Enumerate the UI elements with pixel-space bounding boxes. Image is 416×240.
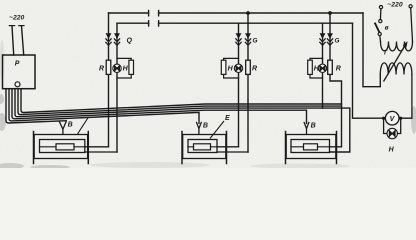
break tick <box>148 21 150 26</box>
voltmeter V <box>385 111 399 125</box>
wire bus w5 (box to branch 3 staircase) <box>18 89 342 115</box>
branch 2 <box>239 13 249 152</box>
top bus upper line (right part) <box>159 12 363 14</box>
wire branch1 right (from lower bus) <box>116 23 118 152</box>
svg-text:P: P <box>15 61 20 68</box>
wire upper bus to transformer secondary left <box>363 13 380 87</box>
wire bus w6 (box to branch 3 staircase) <box>21 89 342 113</box>
parallel loop with resistor H branch2 <box>221 58 238 78</box>
top bus lower line (right part) <box>159 22 353 24</box>
plug B unit2 <box>196 122 201 129</box>
lamp H <box>387 128 397 138</box>
secondary right terminal down to voltmeter <box>411 75 413 119</box>
plug B unit1 <box>59 121 67 130</box>
break tick resume upper <box>158 11 160 16</box>
wire bus w4 (box to unit 3 lower entry) <box>15 89 350 152</box>
right feed corners <box>353 13 386 118</box>
entry stub upper from branch2 <box>217 146 239 148</box>
switch (right supply) <box>379 6 382 9</box>
svg-text:E: E <box>225 115 230 122</box>
entry stub lower from branch1 <box>85 151 117 153</box>
svg-text:G: G <box>253 38 258 45</box>
wire bus w3 (box to unit 3 plug) <box>12 89 307 124</box>
svg-text:R: R <box>336 65 341 72</box>
terminal tick left supply wire 1 <box>9 25 14 27</box>
resistor R branch1 <box>106 60 111 74</box>
connector G plug branch3 left <box>319 33 325 45</box>
leader line unit1 <box>78 117 89 134</box>
resistor R branch3 <box>328 60 333 74</box>
wire lower bus to voltmeter <box>353 23 386 118</box>
wire branch1 left (from upper bus) <box>108 13 110 147</box>
wire supply 1 into box P <box>12 26 14 55</box>
connector Q plug branch1 left <box>105 33 111 45</box>
svg-text:~220: ~220 <box>387 2 403 9</box>
box P (control cabinet) <box>3 55 36 89</box>
entry stub lower from branch2 <box>217 151 248 153</box>
lamp H parallel bracket <box>384 118 401 133</box>
entry stub upper from branch1 <box>85 146 109 148</box>
branch 3 <box>323 13 342 147</box>
indicator circle on box P bottom <box>15 82 20 87</box>
connector G plug branch3 right <box>327 33 333 45</box>
junction dot voltmeter left <box>382 117 385 120</box>
secondary winding <box>380 63 412 75</box>
svg-text:R: R <box>252 65 257 72</box>
branch 1 <box>109 13 118 152</box>
wire branch3 right (from upper bus, staircase to unit 3 upper entry) <box>330 13 342 147</box>
signal lamp branch3 <box>318 64 326 72</box>
top bus upper line (left part) <box>109 12 149 14</box>
switch blade <box>375 23 380 33</box>
transformer T <box>380 8 413 118</box>
primary right terminal to supply <box>411 8 413 42</box>
lamp fixture unit 2 <box>182 132 248 164</box>
lamp fixture unit 3 <box>286 132 337 164</box>
svg-text:B: B <box>68 122 73 129</box>
break tick resume lower <box>158 21 160 26</box>
parallel loop with resistor H branch1 <box>117 58 134 78</box>
leader line unit2 <box>210 121 224 139</box>
connector G plug branch2 left <box>235 33 241 45</box>
wire supply 2 into box P <box>22 26 24 55</box>
svg-text:~220: ~220 <box>9 14 25 21</box>
junction dot branch3 on upper bus <box>328 11 332 15</box>
wire voltmeter right <box>399 117 412 119</box>
junction dot branch2 on upper bus <box>246 11 250 15</box>
wire branch3 left (from lower bus, joins bus w4) <box>322 23 324 108</box>
wire branch2 right (from upper bus) <box>247 13 249 152</box>
svg-text:R: R <box>99 65 104 72</box>
switch wire upper <box>379 9 382 20</box>
wire branch2 left (from lower bus) <box>238 23 240 147</box>
top bus lower line (left part) <box>117 22 149 24</box>
signal lamp branch1 <box>113 64 121 72</box>
svg-text:в: в <box>385 24 389 31</box>
variable arrow across transformer <box>384 44 406 81</box>
paper background <box>0 0 416 168</box>
primary left terminal to switch <box>379 36 382 42</box>
svg-text:G: G <box>335 38 340 45</box>
svg-text:B: B <box>203 122 208 129</box>
plug B unit3 <box>304 122 309 129</box>
parallel loop with resistor H branch3 <box>308 58 323 78</box>
svg-text:Q: Q <box>127 38 133 45</box>
svg-text:B: B <box>311 123 316 130</box>
break tick <box>148 11 150 16</box>
wire bus w1 (box to unit 1 plug) <box>6 89 66 123</box>
terminal tick left supply wire 2 <box>19 25 24 27</box>
right supply terminal <box>409 5 412 8</box>
junction dot voltmeter right <box>399 117 402 120</box>
signal lamp branch2 <box>234 64 242 72</box>
lamp fixture unit 1 <box>34 132 118 164</box>
connector Q plug branch1 right <box>114 33 120 45</box>
wire bus w2 (box to unit 2 plug) <box>9 89 199 124</box>
primary winding <box>381 42 413 51</box>
resistor R branch2 <box>246 60 251 74</box>
connector G plug branch2 right <box>245 33 251 45</box>
